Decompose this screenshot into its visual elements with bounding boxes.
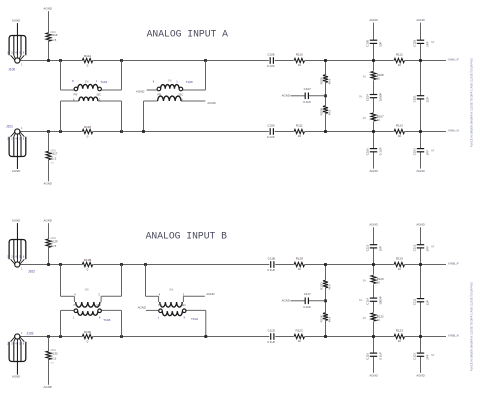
svg-text:C114: C114 xyxy=(365,298,369,305)
svg-text:PLACE IN ORDER SHOWN R CLOSE T: PLACE IN ORDER SHOWN R CLOSE TO DIFF C A… xyxy=(470,58,474,147)
svg-text:49.9: 49.9 xyxy=(328,284,332,290)
svg-text:SEC: SEC xyxy=(179,95,184,97)
svg-text:596: 596 xyxy=(169,289,174,292)
svg-text:21.5: 21.5 xyxy=(51,356,57,360)
svg-text:0.1UF: 0.1UF xyxy=(267,268,275,272)
svg-text:AGND: AGND xyxy=(44,181,52,185)
svg-text:T103: T103 xyxy=(103,318,110,322)
svg-text:21.5: 21.5 xyxy=(51,157,57,161)
svg-text:10P: 10P xyxy=(379,246,383,251)
svg-text:R12D: R12D xyxy=(319,282,323,289)
svg-text:10: 10 xyxy=(398,63,402,67)
svg-text:ANALOG INPUT A: ANALOG INPUT A xyxy=(147,29,229,40)
svg-text:R119: R119 xyxy=(396,257,403,261)
svg-text:AGND: AGND xyxy=(12,169,20,173)
svg-text:22P: 22P xyxy=(426,97,430,102)
svg-text:2PF: 2PF xyxy=(426,354,430,360)
svg-text:C103: C103 xyxy=(412,148,416,155)
svg-text:C11D: C11D xyxy=(268,329,276,333)
svg-text:10: 10 xyxy=(398,134,402,138)
svg-text:J100: J100 xyxy=(8,68,15,72)
svg-text:AGND: AGND xyxy=(282,94,290,98)
svg-text:2PF: 2PF xyxy=(426,150,430,156)
svg-text:VINB_N: VINB_N xyxy=(448,334,459,338)
svg-text:ANALOG INPUT B: ANALOG INPUT B xyxy=(146,230,228,241)
svg-text:AGND: AGND xyxy=(416,223,424,227)
svg-text:C115: C115 xyxy=(365,244,369,251)
svg-text:AGND: AGND xyxy=(136,89,144,93)
svg-text:VINB_P: VINB_P xyxy=(448,262,459,266)
svg-text:AGND: AGND xyxy=(369,373,377,377)
svg-text:C109: C109 xyxy=(267,124,275,128)
svg-text:AGND: AGND xyxy=(44,385,52,389)
svg-text:10: 10 xyxy=(298,134,302,138)
svg-text:NP: NP xyxy=(431,149,435,152)
svg-text:SEC: SEC xyxy=(96,305,101,307)
svg-text:AGND: AGND xyxy=(12,375,20,379)
svg-text:0.1UF: 0.1UF xyxy=(303,305,311,309)
svg-text:J102: J102 xyxy=(28,270,35,274)
svg-text:0.1UF: 0.1UF xyxy=(267,340,275,344)
svg-text:T102: T102 xyxy=(191,317,198,321)
svg-text:C116: C116 xyxy=(365,353,369,360)
svg-text:10: 10 xyxy=(298,267,302,271)
svg-text:PRI: PRI xyxy=(73,305,77,307)
svg-text:10: 10 xyxy=(377,281,381,285)
svg-text:0.1UF: 0.1UF xyxy=(267,135,275,139)
svg-text:AGND: AGND xyxy=(12,219,20,223)
svg-text:J103: J103 xyxy=(27,331,34,335)
svg-text:AGND: AGND xyxy=(416,18,424,22)
svg-text:AGND: AGND xyxy=(44,7,52,11)
svg-text:21.5: 21.5 xyxy=(51,244,57,248)
svg-text:R132: R132 xyxy=(51,352,59,356)
svg-text:R12B: R12B xyxy=(84,258,92,262)
svg-text:R114: R114 xyxy=(84,54,91,58)
svg-text:T100: T100 xyxy=(186,80,193,84)
svg-text:R116: R116 xyxy=(51,33,58,37)
svg-text:AGND: AGND xyxy=(369,223,377,227)
svg-text:C105: C105 xyxy=(365,39,369,46)
svg-text:R118: R118 xyxy=(84,125,91,129)
svg-text:0.1UF: 0.1UF xyxy=(379,147,383,155)
svg-text:596: 596 xyxy=(85,80,90,83)
svg-text:NP: NP xyxy=(431,354,435,357)
svg-text:2PF: 2PF xyxy=(426,246,430,252)
svg-text:49.9: 49.9 xyxy=(328,78,332,84)
svg-text:1000P: 1000P xyxy=(379,93,383,101)
svg-text:R12E: R12E xyxy=(319,315,323,322)
svg-text:0.1UF: 0.1UF xyxy=(267,64,275,68)
svg-text:NP: NP xyxy=(431,41,435,44)
svg-text:2PF: 2PF xyxy=(426,41,430,47)
svg-text:0.1UF: 0.1UF xyxy=(303,100,311,104)
svg-text:R10B: R10B xyxy=(319,108,323,115)
svg-text:R123: R123 xyxy=(396,329,404,333)
svg-text:10: 10 xyxy=(398,267,402,271)
svg-text:10: 10 xyxy=(377,118,381,122)
svg-text:10: 10 xyxy=(377,77,381,81)
svg-text:R112: R112 xyxy=(396,53,403,57)
svg-text:PRI: PRI xyxy=(158,305,162,307)
svg-text:C107: C107 xyxy=(304,87,312,91)
svg-text:596: 596 xyxy=(85,289,90,292)
svg-text:R113: R113 xyxy=(396,124,403,128)
svg-text:596: 596 xyxy=(168,80,173,83)
svg-text:VINA_N: VINA_N xyxy=(448,129,459,133)
svg-text:10P: 10P xyxy=(379,42,383,47)
svg-text:10: 10 xyxy=(298,339,302,343)
svg-text:SEC: SEC xyxy=(96,95,101,97)
svg-text:AGND: AGND xyxy=(416,373,424,377)
svg-text:AGND: AGND xyxy=(206,292,214,296)
svg-text:AGND: AGND xyxy=(369,18,377,22)
svg-text:R109: R109 xyxy=(319,77,323,84)
svg-text:AGND: AGND xyxy=(138,306,146,310)
svg-text:PLACE IN ORDER SHOWN R CLOSE T: PLACE IN ORDER SHOWN R CLOSE TO DIFF C A… xyxy=(470,282,474,371)
svg-text:1000P: 1000P xyxy=(379,296,383,304)
svg-text:10: 10 xyxy=(377,318,381,322)
svg-text:AGND: AGND xyxy=(282,299,290,303)
svg-text:C113: C113 xyxy=(412,353,416,360)
svg-text:NP: NP xyxy=(431,246,435,249)
svg-text:C106: C106 xyxy=(365,148,369,155)
svg-text:C102: C102 xyxy=(412,39,416,46)
svg-text:C111: C111 xyxy=(412,298,416,305)
svg-text:R130: R130 xyxy=(84,330,92,334)
svg-text:PRI: PRI xyxy=(73,95,77,97)
svg-text:R117: R117 xyxy=(51,152,58,156)
svg-text:AGND: AGND xyxy=(207,101,215,105)
svg-text:AGND: AGND xyxy=(416,169,424,173)
svg-text:R111: R111 xyxy=(296,124,303,128)
svg-text:J101: J101 xyxy=(6,124,13,128)
svg-text:AGND: AGND xyxy=(44,219,52,223)
svg-text:C112: C112 xyxy=(412,244,416,251)
svg-text:C101: C101 xyxy=(412,95,416,102)
svg-text:22P: 22P xyxy=(426,300,430,305)
svg-text:0.1UF: 0.1UF xyxy=(379,352,383,360)
svg-text:PRI: PRI xyxy=(157,95,161,97)
svg-text:C108: C108 xyxy=(267,53,275,57)
svg-text:C11B: C11B xyxy=(268,257,275,261)
svg-text:1%: 1% xyxy=(51,363,54,365)
svg-text:R110: R110 xyxy=(296,53,303,57)
svg-text:49.9: 49.9 xyxy=(328,316,332,322)
svg-text:21.5: 21.5 xyxy=(51,38,57,42)
svg-text:10: 10 xyxy=(398,339,402,343)
svg-text:C117: C117 xyxy=(304,292,311,296)
svg-text:C104: C104 xyxy=(365,94,369,101)
svg-text:R128: R128 xyxy=(296,257,304,261)
svg-text:AGND: AGND xyxy=(12,19,20,23)
svg-text:T101: T101 xyxy=(100,80,107,84)
svg-text:AGND: AGND xyxy=(369,169,377,173)
svg-text:10: 10 xyxy=(298,63,302,67)
svg-text:SEC: SEC xyxy=(181,305,186,307)
svg-text:R12F: R12F xyxy=(51,239,59,243)
svg-text:R12C: R12C xyxy=(295,329,304,333)
svg-text:1%: 1% xyxy=(51,163,54,165)
svg-text:49.9: 49.9 xyxy=(328,109,332,115)
svg-text:VINA_P: VINA_P xyxy=(448,58,459,62)
